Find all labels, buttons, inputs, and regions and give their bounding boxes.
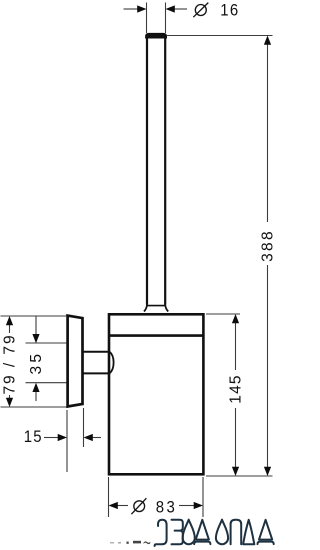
svg-text:35: 35 bbox=[28, 351, 45, 375]
svg-text:79 / 79: 79 / 79 bbox=[2, 333, 19, 394]
svg-text:388: 388 bbox=[260, 229, 277, 262]
svg-text:83: 83 bbox=[156, 499, 178, 517]
svg-text:145: 145 bbox=[228, 374, 245, 403]
svg-text:15: 15 bbox=[24, 428, 43, 446]
svg-text:16: 16 bbox=[220, 2, 239, 20]
